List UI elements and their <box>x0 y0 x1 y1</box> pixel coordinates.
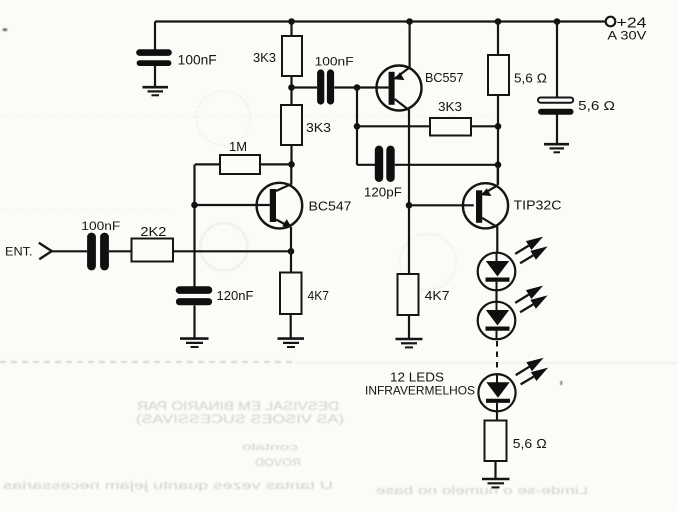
wire: base bias vertical line <box>193 164 195 286</box>
capacitor C5 120pF <box>364 150 402 200</box>
node: rail junction above C6 <box>554 18 561 25</box>
wire: C6 to ground <box>556 115 558 145</box>
svg-text:+24: +24 <box>617 15 647 32</box>
wire: R4 to Q1 emitter node <box>173 250 291 252</box>
transistor Q2 BC557 <box>377 66 464 111</box>
node: rail junction above R1 <box>288 18 295 25</box>
svg-text:3K3: 3K3 <box>438 99 462 114</box>
svg-text:2K2: 2K2 <box>140 225 166 239</box>
node: junction R1/R2/C3 <box>288 84 295 91</box>
resistor R9 5,6 ohm <box>485 421 547 462</box>
wire: base node down <box>356 88 358 166</box>
wire: R8 bottom to Q3 emitter <box>497 95 499 185</box>
svg-text:5,6 Ω: 5,6 Ω <box>513 436 547 451</box>
wire: C4 to ground <box>193 305 195 338</box>
input chevron <box>39 243 52 259</box>
label ENT. <box>5 246 33 258</box>
capacitor C6 5,6 ohm (electrolytic symbol) <box>538 22 615 114</box>
capacitor C2 100nF (input) <box>81 219 120 266</box>
svg-text:5,6 Ω: 5,6 Ω <box>578 99 615 113</box>
svg-text:3K3: 3K3 <box>253 50 276 65</box>
wire: Q2 emitter up to rail <box>409 22 411 67</box>
svg-text:12 LEDS: 12 LEDS <box>390 371 444 385</box>
wire: R7 to R8 bottom node <box>471 125 498 127</box>
wire: C5 left lead <box>357 164 375 166</box>
LED D1 <box>478 237 548 291</box>
node: junction R2/1M/Q1 collector <box>288 161 295 168</box>
terminal +24V <box>606 15 647 43</box>
resistor R8 5,6 ohm <box>488 22 547 96</box>
ground under R9 <box>482 479 510 487</box>
svg-text:120nF: 120nF <box>217 288 254 303</box>
LED D12 <box>478 358 548 412</box>
wire: Q1 collector up <box>290 164 292 184</box>
wire: R5 to ground <box>290 314 292 339</box>
node: junction Q2 collector / Q3 base / R6 <box>406 202 413 209</box>
svg-text:4K7: 4K7 <box>308 288 330 303</box>
svg-text:3K3: 3K3 <box>306 120 331 135</box>
svg-text:INFRAVERMELHOS: INFRAVERMELHOS <box>365 384 475 398</box>
wire: Q1 emitter down to R5 <box>290 227 292 273</box>
wire: +V top rail <box>155 20 605 22</box>
wire: C3 to Q2 base <box>334 86 389 88</box>
transistor Q1 BC547 <box>257 183 352 229</box>
svg-text:Limde-se o numelo no base: Limde-se o numelo no base <box>376 485 588 497</box>
wire: C5 right lead to Q3 emitter node <box>395 164 498 166</box>
wire: junction to C3 <box>292 86 318 88</box>
LED D2 <box>478 286 548 340</box>
capacitor C4 120nF <box>180 288 254 303</box>
svg-text:120pF: 120pF <box>364 185 402 199</box>
wire: rail down to C1 <box>154 22 156 51</box>
svg-text:DESVISAL EM BINARIO PAR: DESVISAL EM BINARIO PAR <box>137 401 339 413</box>
wire: Q1 base <box>195 204 271 206</box>
svg-text:A 30V: A 30V <box>607 31 646 43</box>
capacitor C1 100nF (supply bypass) <box>140 53 217 68</box>
capacitor C3 100nF (coupling) <box>315 56 354 101</box>
wire: C1 to ground <box>154 66 156 87</box>
wire: Q3 emitter up <box>497 165 499 185</box>
wire: input to C2 <box>52 250 87 252</box>
svg-text:TIP32C: TIP32C <box>514 199 562 213</box>
wire: dashed (omitted LEDs) <box>496 341 498 371</box>
wire: R1 to R2 <box>290 76 292 105</box>
node: junction C5/Q3 emitter <box>495 162 502 169</box>
ground under C4 <box>180 339 209 347</box>
node: rail junction above Q2 emitter <box>406 18 413 25</box>
node: junction to R7 <box>354 123 361 130</box>
svg-text:100nF: 100nF <box>178 53 217 68</box>
svg-text:100nF: 100nF <box>81 219 120 233</box>
wire: Q2 collector down to Q3 base node <box>408 110 410 206</box>
svg-text:contalo: contalo <box>242 442 298 452</box>
svg-text:100nF: 100nF <box>315 56 354 68</box>
svg-text:BC547: BC547 <box>309 198 352 213</box>
ground under C6 <box>544 144 569 152</box>
node: rail junction above R8 <box>495 18 502 25</box>
node: Q1 base tap <box>191 202 198 209</box>
resistor R2 3K3 <box>281 105 331 145</box>
ground under R6 <box>396 339 423 347</box>
wire: to R7 <box>357 125 430 127</box>
node: Q2 base node <box>354 84 361 91</box>
label 12 LEDS INFRAVERMELHOS <box>365 371 475 398</box>
wire: C2 to R4 <box>109 250 132 252</box>
svg-text:4K7: 4K7 <box>425 288 450 303</box>
svg-text:ROVOD: ROVOD <box>255 457 301 469</box>
wire: R9 to ground <box>494 461 496 479</box>
node: junction R7/R8 <box>495 123 502 130</box>
ground under C1 <box>143 87 169 95</box>
svg-text:5,6 Ω: 5,6 Ω <box>514 71 547 86</box>
wire: Q3 base <box>409 204 474 206</box>
svg-text:(AS VISOES SUCESSIVAS): (AS VISOES SUCESSIVAS) <box>136 414 344 426</box>
resistor R1 3K3 <box>253 22 302 77</box>
wire: R6 to ground <box>408 315 410 339</box>
ground under R5 <box>278 339 305 347</box>
svg-text:ENT.: ENT. <box>5 246 33 258</box>
resistor R3 1M <box>195 139 292 174</box>
svg-text:U tantas vezes quantu jejam ne: U tantas vezes quantu jejam necessarias <box>2 480 333 492</box>
wire: D12 to R9 <box>496 411 498 420</box>
resistor R4 2K2 <box>132 225 174 262</box>
resistor R6 4K7 <box>398 205 450 315</box>
node: Q1 emitter junction <box>288 248 295 255</box>
svg-text:BC557: BC557 <box>425 70 464 85</box>
transistor Q3 TIP32C <box>463 183 562 228</box>
resistor R5 4K7 <box>280 273 329 315</box>
wire: Q3 collector down to LED1 <box>496 226 498 253</box>
wire: D1 to D2 <box>495 290 497 302</box>
resistor R7 3K3 (horizontal) <box>430 99 471 136</box>
wire: R2 down to collector node <box>290 145 292 164</box>
svg-text:1M: 1M <box>229 139 247 154</box>
